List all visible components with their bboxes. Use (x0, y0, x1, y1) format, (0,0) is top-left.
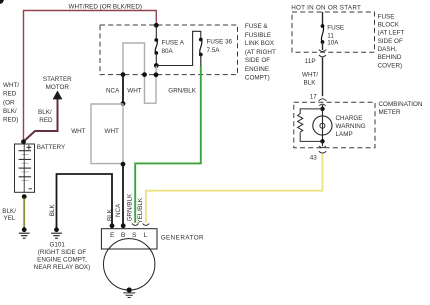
svg-text:WHT/RED (OR BLK/RED): WHT/RED (OR BLK/RED) (69, 3, 142, 10)
svg-text:HOT IN ON OR START: HOT IN ON OR START (291, 4, 361, 11)
wire BLK/RED to starter motor (24, 99, 58, 142)
svg-text:YEL/BLK: YEL/BLK (137, 197, 144, 223)
svg-text:WHT: WHT (71, 128, 85, 135)
node generator ground junction (127, 287, 132, 292)
node G101 junction (54, 227, 59, 232)
svg-text:BLK/: BLK/ (38, 109, 52, 116)
svg-text:GRN/BLK: GRN/BLK (126, 193, 133, 221)
wire to resistor (300, 109, 322, 114)
svg-text:S: S (132, 232, 137, 239)
node fuse box exit WHT (142, 72, 147, 77)
lamp CHARGE WARNING LAMP (313, 116, 332, 135)
wire GRN/BLK fuse 36 to generator S (200, 55, 202, 68)
svg-text:WARNING: WARNING (336, 123, 366, 130)
svg-text:MOTOR: MOTOR (46, 84, 70, 91)
svg-text:ENGINE COMPT,: ENGINE COMPT, (37, 257, 87, 264)
svg-text:WHT: WHT (105, 128, 119, 135)
svg-text:7.5A: 7.5A (207, 47, 221, 54)
svg-text:FUSE: FUSE (378, 13, 395, 20)
wire YEL/BLK meter 43 to generator L (146, 154, 323, 223)
node WHT junction lower (121, 162, 126, 167)
resistor (meter) (298, 114, 303, 133)
wire WHT main vertical (122, 104, 124, 165)
connector 17 (319, 99, 327, 101)
wire fuse A to junction (155, 53, 157, 66)
svg-text:FUSE 36: FUSE 36 (207, 39, 233, 46)
wire resistor to lamp bottom (300, 133, 322, 142)
svg-text:NEAR RELAY BOX): NEAR RELAY BOX) (34, 264, 90, 271)
svg-text:WHT/: WHT/ (302, 72, 318, 79)
svg-text:17: 17 (310, 94, 318, 101)
svg-text:RED: RED (3, 91, 17, 98)
ground G101 (51, 233, 62, 238)
combination meter box (dashed) (294, 102, 375, 148)
svg-text:WHT/: WHT/ (3, 82, 19, 89)
scan artifact top-left corner (0, 0, 4, 4)
svg-text:(OR: (OR (3, 99, 15, 106)
svg-text:FUSE: FUSE (327, 25, 344, 32)
svg-text:ENGINE: ENGINE (245, 66, 269, 73)
svg-text:STARTER: STARTER (43, 76, 72, 83)
battery BATTERY (15, 144, 35, 192)
ground battery (19, 233, 30, 238)
svg-text:(AT LEFT: (AT LEFT (378, 30, 405, 37)
svg-text:CHARGE: CHARGE (336, 115, 363, 122)
wire BLK/YEL battery to ground (23, 198, 25, 229)
node lamp top junction (320, 107, 324, 111)
wire WHT jog inside fuse box (123, 43, 156, 103)
node WHT junction upper (121, 101, 126, 106)
svg-text:SIDE OF: SIDE OF (245, 57, 270, 64)
wire into fuse A (155, 25, 157, 40)
connector 43 (319, 146, 326, 148)
svg-text:11P: 11P (305, 58, 316, 65)
wire to connector 43 (322, 141, 324, 146)
svg-text:COVER): COVER) (378, 62, 403, 69)
node fuse box exit NCA (121, 72, 126, 77)
fuse box FUSE & FUSIBLE LINK BOX (dashed) (100, 25, 238, 75)
svg-text:FUSE &: FUSE & (245, 23, 269, 30)
label FUSE & FUSIBLE LINK BOX (245, 23, 276, 81)
generator body circle (104, 239, 155, 290)
node battery positive terminal (21, 139, 26, 144)
svg-text:RED: RED (39, 117, 53, 124)
wire BLK generator E to G101 (57, 174, 113, 228)
label WHT/RED vertical-stack left (3, 82, 19, 124)
wire into fuse 11 (322, 12, 324, 26)
svg-text:BLK: BLK (107, 208, 114, 221)
node generator E (110, 223, 115, 228)
svg-text:(RIGHT SIDE OF: (RIGHT SIDE OF (38, 249, 87, 256)
wire WHT parallel loop (91, 104, 123, 164)
node fuse box exit fuse A line (154, 72, 159, 77)
svg-text:DASH,: DASH, (378, 46, 397, 53)
svg-text:BEHIND: BEHIND (378, 54, 402, 61)
svg-text:METER: METER (379, 109, 401, 116)
svg-text:RED): RED) (3, 117, 18, 124)
svg-text:COMBINATION: COMBINATION (379, 101, 423, 108)
node battery negative terminal (22, 194, 27, 199)
svg-text:43: 43 (310, 154, 318, 161)
svg-text:BLK: BLK (49, 203, 56, 216)
svg-text:SIDE OF: SIDE OF (378, 38, 403, 45)
svg-text:BLOCK: BLOCK (378, 22, 400, 29)
node lamp bottom junction (320, 139, 324, 143)
wire fuse A junction to fuse 36 (156, 31, 201, 65)
node below fuse A (154, 63, 159, 68)
svg-text:B: B (121, 232, 126, 239)
label FUSE BLOCK (378, 13, 405, 69)
svg-text:NCA: NCA (115, 203, 122, 217)
fuse A 80A (154, 38, 158, 55)
svg-text:YEL: YEL (4, 215, 16, 222)
svg-text:GENERATOR: GENERATOR (161, 234, 204, 241)
svg-text:FUSE A: FUSE A (162, 40, 185, 47)
node battery ground junction (22, 227, 27, 232)
wire WHT/RED from battery to fuse box (24, 11, 157, 142)
connector 11P (319, 50, 327, 52)
wire NCA to generator B (122, 164, 124, 226)
lamp through-wire (322, 109, 324, 141)
starter motor arrow (53, 91, 63, 100)
svg-text:NCA: NCA (106, 88, 120, 95)
wire into meter (322, 105, 324, 109)
svg-text:COMPT): COMPT) (245, 74, 270, 81)
svg-text:10A: 10A (327, 40, 339, 47)
svg-text:GRN/BLK: GRN/BLK (168, 88, 196, 95)
generator terminal box (101, 229, 157, 249)
node generator B (121, 223, 126, 228)
svg-text:(AT RIGHT: (AT RIGHT (245, 49, 276, 56)
wire WHT/BLK (322, 58, 324, 97)
svg-text:E: E (110, 232, 115, 239)
connector generator L (143, 224, 150, 226)
fuse 11 10A (321, 24, 325, 44)
node fuse box entry (154, 23, 159, 28)
svg-text:BLK/: BLK/ (3, 108, 17, 115)
svg-text:G101: G101 (49, 242, 65, 249)
wire NCA segment (122, 75, 124, 104)
svg-text:WHT: WHT (127, 88, 141, 95)
svg-text:L: L (144, 232, 148, 239)
wire fuse 11 to connector (322, 42, 324, 50)
svg-text:LAMP: LAMP (336, 131, 353, 138)
connector generator S (132, 224, 139, 226)
svg-text:BLK: BLK (304, 80, 317, 87)
ground generator (123, 293, 135, 298)
svg-text:FUSIBLE: FUSIBLE (245, 32, 271, 39)
svg-text:80A: 80A (162, 48, 174, 55)
svg-text:BATTERY: BATTERY (37, 144, 66, 151)
svg-text:LINK BOX: LINK BOX (245, 40, 275, 47)
fuse block box (dashed) (292, 12, 375, 52)
fuse 36 7.5A (199, 38, 203, 57)
svg-text:11: 11 (327, 33, 334, 40)
